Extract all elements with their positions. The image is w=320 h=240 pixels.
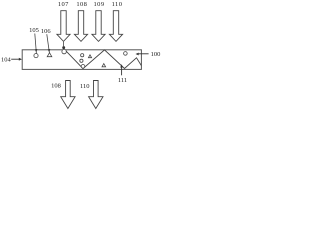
circle particle in V notch bbox=[81, 65, 85, 69]
bottom arrow 110 (hollow down arrow) bbox=[89, 81, 103, 109]
arrow 109 (hollow down arrow) bbox=[92, 11, 105, 42]
arrow 110 (hollow down arrow) bbox=[109, 11, 122, 42]
svg-text:104: 104 bbox=[1, 56, 12, 63]
leader 104 arrowhead bbox=[19, 58, 22, 61]
leader 105 bbox=[35, 34, 37, 54]
circle particle right bbox=[124, 52, 128, 56]
leader 105 arrowhead bbox=[35, 49, 38, 52]
circle particle mid 1 bbox=[81, 54, 84, 57]
leader 100 arrowhead bbox=[136, 53, 139, 56]
svg-text:111: 111 bbox=[118, 77, 127, 84]
circle particle in band left bbox=[34, 54, 38, 58]
zigzag groove profile inside band bbox=[65, 50, 141, 69]
triangle particle right bbox=[102, 64, 106, 67]
leader 104 line bbox=[11, 58, 19, 60]
svg-text:110: 110 bbox=[80, 83, 90, 90]
triangle particle mid bbox=[88, 55, 91, 58]
open particle circle at surface bbox=[62, 49, 66, 53]
leader 106 arrowhead bbox=[48, 49, 51, 52]
substrate body 100 (rectangle band) bbox=[22, 50, 141, 70]
leader 111 arrowhead bbox=[120, 64, 123, 67]
svg-text:107: 107 bbox=[58, 1, 69, 8]
triangle particle in band left bbox=[47, 53, 52, 57]
circle particle mid 2 bbox=[80, 59, 83, 62]
leader 106 bbox=[47, 34, 50, 53]
filled particle dot bbox=[62, 46, 65, 49]
svg-text:110: 110 bbox=[112, 1, 123, 8]
svg-text:105: 105 bbox=[29, 27, 39, 34]
svg-text:108: 108 bbox=[76, 1, 87, 8]
arrow 107 (hollow down arrow) bbox=[57, 11, 70, 42]
arrow 108 (hollow down arrow) bbox=[74, 11, 87, 42]
svg-text:108: 108 bbox=[51, 82, 61, 89]
deposition line below arrow 107 bbox=[63, 42, 65, 46]
svg-text:109: 109 bbox=[94, 1, 105, 8]
leader 111 line bbox=[121, 66, 123, 75]
svg-text:106: 106 bbox=[41, 28, 52, 35]
leader 100 line bbox=[139, 53, 149, 55]
bottom arrow 108 (hollow down arrow) bbox=[61, 81, 75, 109]
svg-text:100: 100 bbox=[151, 51, 161, 58]
